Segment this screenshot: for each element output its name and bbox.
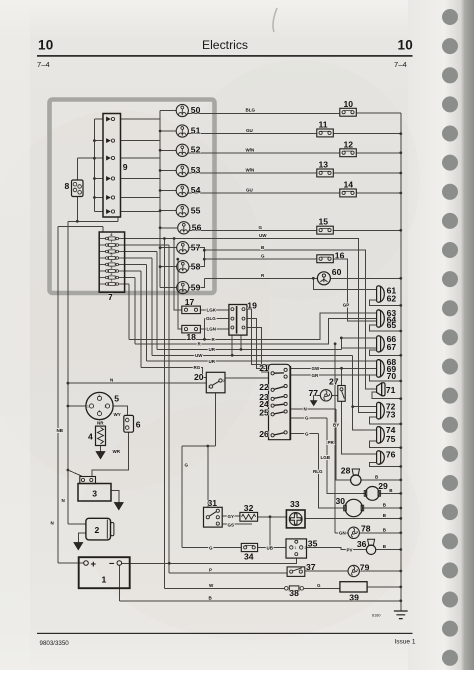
svg-text:GR: GR <box>312 373 320 378</box>
svg-text:3: 3 <box>111 266 113 270</box>
lamp 59 <box>177 282 189 294</box>
resistor 32 <box>240 512 258 521</box>
wire G fuse 38 to unit 39 <box>304 587 340 589</box>
svg-text:12: 12 <box>344 139 354 149</box>
wire from connector 8 bottom <box>76 197 78 222</box>
wire PV to pump 36 <box>307 547 401 549</box>
lamp 57 <box>177 242 189 254</box>
svg-text:LGN: LGN <box>207 327 217 332</box>
switch 20 <box>206 372 225 393</box>
svg-text:BY: BY <box>333 423 339 428</box>
svg-text:56: 56 <box>192 223 202 233</box>
svg-text:11: 11 <box>319 120 328 130</box>
wire resistor 32 to clock 33 <box>258 517 288 548</box>
wire switch 20 right to switchpack <box>225 377 269 379</box>
svg-text:G: G <box>305 415 309 420</box>
svg-text:7–4: 7–4 <box>394 60 407 69</box>
svg-text:1: 1 <box>102 575 107 585</box>
node ignition feed tap <box>67 405 70 408</box>
lamp 55 <box>176 205 188 217</box>
ignition switch 5 <box>86 392 113 419</box>
wire GR switchpack to connector 68 <box>290 374 376 376</box>
wire dynamo 2 to ground <box>78 533 86 543</box>
switch 27 <box>338 386 345 402</box>
svg-text:60: 60 <box>332 267 342 277</box>
node R row to 61 <box>312 277 315 280</box>
svg-text:38: 38 <box>289 588 299 598</box>
svg-text:8: 8 <box>65 181 70 191</box>
wire row into fusebox 7 top <box>58 227 103 232</box>
svg-text:2: 2 <box>98 394 100 398</box>
svg-text:7: 7 <box>111 240 113 244</box>
wire fuse f4 UW row to connectors 72 74 <box>125 258 377 430</box>
svg-text:10: 10 <box>344 99 354 109</box>
wire rows box 9 to lamp bus <box>121 119 161 212</box>
wire LGK switch 17 to connector 19 <box>200 309 229 311</box>
svg-text:4: 4 <box>111 259 113 263</box>
node feed 17 <box>173 237 176 240</box>
node fuse f1 branch <box>163 237 166 240</box>
node feed 18 <box>176 258 179 261</box>
node UW to 72 <box>351 405 354 408</box>
wire GN switch 35 to fan 78 <box>335 344 401 533</box>
svg-text:GS: GS <box>228 522 235 527</box>
wire N row to switch 20 <box>68 382 206 384</box>
svg-text:62: 62 <box>387 293 397 303</box>
svg-text:53: 53 <box>191 165 201 175</box>
ground main bus <box>394 611 408 619</box>
wire fuse f6 RG row to switch 20 <box>125 271 207 378</box>
svg-text:16: 16 <box>335 250 345 260</box>
wire G switch 20 down to fuse 34 row <box>182 393 241 548</box>
wire connector 76 loop to bus <box>370 462 401 466</box>
svg-text:GU: GU <box>246 188 253 193</box>
wire W vertical <box>164 239 284 589</box>
svg-text:30: 30 <box>336 496 346 506</box>
svg-text:50: 50 <box>191 105 201 115</box>
switch 35 <box>286 539 307 558</box>
fuse 34 <box>241 543 257 551</box>
wire UB fuse 34 to switch 35 <box>258 546 286 548</box>
svg-text:55: 55 <box>191 206 201 216</box>
svg-text:3: 3 <box>105 404 107 408</box>
wire fuse f3 UR row to connector 66 <box>125 252 377 350</box>
connector 66 67 <box>377 336 385 352</box>
connector 63 64 65 <box>377 310 385 327</box>
svg-text:39: 39 <box>349 593 359 603</box>
svg-text:UR: UR <box>209 359 216 364</box>
svg-text:WR: WR <box>113 449 121 454</box>
svg-text:G: G <box>209 545 213 550</box>
wire to control box 3 top-left <box>68 470 83 477</box>
lamp 52 <box>176 144 188 156</box>
svg-text:UR: UR <box>209 347 216 352</box>
svg-text:78: 78 <box>361 523 371 533</box>
svg-text:7–4: 7–4 <box>37 60 50 69</box>
svg-text:GLG: GLG <box>206 316 216 321</box>
node bus junctions <box>399 132 402 135</box>
wire lamp stubs <box>160 111 178 288</box>
wire GP switch 16 to connector 63 <box>333 259 376 321</box>
wire from connector 8 top to left bus <box>77 158 94 180</box>
wire GW switchpack to connector 68 <box>290 367 376 369</box>
wire G row to switch 16 <box>204 258 316 260</box>
connector 61 62 <box>377 286 385 303</box>
node connector 8 branch <box>76 220 79 223</box>
wire clock 33 to bus <box>305 517 401 519</box>
lamp 58 <box>177 261 189 273</box>
svg-text:UB: UB <box>267 545 274 550</box>
lamp 50 <box>176 104 188 116</box>
wire connector 19 right outputs to switchpack <box>247 309 269 372</box>
svg-text:2: 2 <box>305 546 307 550</box>
wire B row to horn 71 <box>204 250 376 389</box>
svg-text:6: 6 <box>136 420 141 430</box>
wire GY switch 31 to resistor 32 <box>222 515 240 517</box>
unit 39 <box>340 582 367 592</box>
wire BLG lamp 50 to switch 10 <box>187 112 340 114</box>
svg-text:N: N <box>51 520 54 525</box>
lamp 51 <box>176 125 188 137</box>
svg-text:36: 36 <box>357 539 367 549</box>
svg-text:18: 18 <box>186 332 196 342</box>
svg-text:14: 14 <box>344 180 354 190</box>
wire left bus beside box 9 <box>94 119 103 212</box>
svg-text:5: 5 <box>114 394 119 404</box>
svg-text:+: + <box>91 559 97 570</box>
wire switch 27 top <box>341 368 343 385</box>
wire R feed to connector 61 <box>313 278 376 289</box>
node P branch <box>168 562 171 565</box>
svg-text:77: 77 <box>309 388 319 398</box>
connector 76 <box>377 451 385 465</box>
svg-text:Electrics: Electrics <box>202 38 248 52</box>
svg-text:NB: NB <box>57 428 64 433</box>
svg-text:22: 22 <box>259 382 269 392</box>
svg-text:NR: NR <box>97 420 104 425</box>
wire feed to switch 18 <box>178 259 182 329</box>
svg-text:G: G <box>305 431 309 436</box>
svg-text:GN: GN <box>339 531 346 536</box>
svg-text:1: 1 <box>111 279 113 283</box>
horn 71 <box>377 383 385 396</box>
connector 72 73 <box>377 402 385 419</box>
svg-text:9: 9 <box>123 162 128 172</box>
svg-text:P: P <box>209 568 212 573</box>
wire connector 63 loop to bus <box>370 325 401 331</box>
connector 6 <box>124 415 134 432</box>
ballast resistor 4 <box>96 426 106 445</box>
svg-text:PV: PV <box>347 548 353 553</box>
svg-text:76: 76 <box>386 450 396 460</box>
ground control box 3 <box>114 503 123 510</box>
wire horn 71 loop to bus <box>372 392 401 399</box>
switch 14 <box>340 189 357 197</box>
wire NR ignition 5 to ballast 4 <box>99 420 101 427</box>
dynamo 2 <box>86 518 114 540</box>
svg-text:G: G <box>317 583 321 588</box>
svg-text:GP: GP <box>343 302 350 307</box>
wire G lamp 56 to switch 15 <box>188 229 316 231</box>
svg-text:32: 32 <box>244 503 254 513</box>
node lamp bus junctions <box>159 130 162 133</box>
pump 36 <box>366 539 375 554</box>
svg-text:2: 2 <box>111 272 113 276</box>
motor 30 <box>344 499 364 516</box>
svg-text:17: 17 <box>185 297 195 307</box>
svg-text:Issue 1: Issue 1 <box>395 638 416 645</box>
svg-text:10: 10 <box>398 38 413 53</box>
svg-text:WY: WY <box>114 412 121 417</box>
wire pump 28 to bus <box>361 479 401 481</box>
svg-text:4: 4 <box>88 431 93 441</box>
wire motor 29 to bus <box>380 492 401 494</box>
wire switch outputs to bus <box>333 113 401 230</box>
switch 16 <box>317 255 334 263</box>
wire fuse f1 row LW <box>125 239 377 413</box>
svg-text:59: 59 <box>191 282 201 292</box>
wire connector 61 loop to bus <box>370 300 401 305</box>
svg-text:7: 7 <box>108 292 113 302</box>
fan 77 <box>320 390 331 401</box>
node GN feed tap <box>334 342 337 345</box>
wire fuse f2 to P row <box>125 245 288 573</box>
node 19 output b <box>240 348 243 351</box>
svg-text:6: 6 <box>111 246 113 250</box>
lamp 54 <box>176 184 188 196</box>
wire fuse f7 R row to connector 64 <box>125 278 377 344</box>
wire motor 30 to bus <box>362 507 400 509</box>
wire battery minus down to B row <box>119 565 401 601</box>
node 27 to GW <box>340 367 343 370</box>
wire G switchpack RLG to motor 30 <box>290 434 345 508</box>
wire WY ignition 5 to connector 6 <box>113 406 127 415</box>
svg-text:3: 3 <box>92 488 97 498</box>
wire P switch 37 to fan 79 and bus <box>305 570 401 572</box>
wire N switchpack to PR and pump 28 <box>290 409 350 480</box>
svg-text:GW: GW <box>312 366 321 371</box>
svg-text:1: 1 <box>208 385 210 389</box>
node GLG branch <box>203 338 206 341</box>
switch 18 <box>182 325 201 333</box>
wire NB left vertical to battery <box>58 227 84 563</box>
svg-text:35: 35 <box>308 538 318 548</box>
battery 1 <box>79 557 130 588</box>
svg-text:67: 67 <box>387 342 397 352</box>
wire GLG row <box>205 319 229 340</box>
ground dynamo 2 <box>74 543 83 550</box>
wire connector 72 loop to bus <box>370 417 401 424</box>
node lamp 57 58 bracket B <box>203 249 206 252</box>
wire unit 39 to bus <box>367 586 401 588</box>
switch 31 <box>204 507 223 527</box>
node control box feed tap <box>67 469 70 472</box>
connector strip 9 <box>103 114 121 218</box>
node 32 output branch <box>269 515 272 518</box>
svg-text:RLG: RLG <box>313 469 323 474</box>
fan 78 <box>348 527 359 538</box>
switch 11 <box>317 129 334 137</box>
node N row tap <box>67 382 70 385</box>
wire G switchpack LGB to motor 29 <box>290 418 365 494</box>
svg-text:37: 37 <box>306 562 316 572</box>
wire feed to switch 17 <box>174 239 182 310</box>
svg-text:−: − <box>109 558 115 569</box>
wire connector 19 bottom outputs <box>232 335 241 355</box>
svg-text:N: N <box>62 498 65 503</box>
svg-text:UW: UW <box>195 353 203 358</box>
wire bracket lamps 57 58 <box>189 248 205 267</box>
motor 29 <box>364 487 380 501</box>
svg-text:58: 58 <box>191 262 201 272</box>
svg-text:8180: 8180 <box>372 614 380 618</box>
wire fan 77 terminals <box>314 395 338 400</box>
wire connector 68 loop to bus <box>370 375 401 381</box>
switch 15 <box>317 226 334 234</box>
pump 28 <box>351 469 361 485</box>
connector 8 <box>72 180 84 197</box>
switchpack 21-26 <box>269 364 291 439</box>
wire R lamp 59 to lamp 60 and bus <box>189 278 401 287</box>
wire GU lamp 54 to switch 14 <box>187 192 340 194</box>
grey frame <box>50 100 215 294</box>
svg-text:70: 70 <box>387 371 397 381</box>
fuse 38 <box>285 586 304 591</box>
svg-text:LGB: LGB <box>321 455 331 460</box>
svg-text:57: 57 <box>191 243 201 253</box>
wire WR connector 6 to control box 3 <box>92 432 129 476</box>
node 19 output a <box>231 354 234 357</box>
wire row battery minus to 35 bottom <box>122 558 297 563</box>
control box 3 <box>78 477 111 502</box>
svg-text:G: G <box>259 225 263 230</box>
wire GU lamp 51 to switch 11 <box>187 133 317 135</box>
svg-text:5: 5 <box>111 253 113 257</box>
switch 37 <box>287 567 305 577</box>
wire WN lamp 52 to switch 12 <box>187 152 340 154</box>
svg-text:75: 75 <box>386 434 396 444</box>
node left bus junctions <box>93 139 96 142</box>
wire main right bus <box>400 113 402 611</box>
svg-text:4: 4 <box>98 410 100 414</box>
svg-text:28: 28 <box>341 466 351 476</box>
connector 74 75 <box>377 427 385 444</box>
svg-text:W/N: W/N <box>246 168 255 173</box>
connector 19 <box>229 305 247 336</box>
binding holes <box>442 9 458 666</box>
wire connector 66 loop to bus <box>370 350 401 355</box>
fan 79 <box>348 565 359 576</box>
svg-text:N: N <box>110 378 113 383</box>
wire row under box 9 <box>68 217 118 222</box>
lamp 56 <box>178 222 190 234</box>
svg-text:29: 29 <box>378 481 388 491</box>
ground fan 77 <box>311 401 317 406</box>
svg-text:79: 79 <box>360 563 370 573</box>
node UR to 66 <box>340 337 343 340</box>
switch 10 <box>340 108 357 116</box>
svg-text:10: 10 <box>38 38 53 53</box>
svg-text:20: 20 <box>194 372 204 382</box>
svg-text:1: 1 <box>87 404 89 408</box>
svg-text:UW: UW <box>259 233 267 238</box>
wire connector 74 loop to bus <box>370 441 401 447</box>
svg-text:73: 73 <box>386 410 396 420</box>
wire fuse f8 R row to connector 63 <box>125 284 377 339</box>
svg-text:26: 26 <box>259 429 269 439</box>
svg-text:PR: PR <box>328 440 335 445</box>
svg-text:GY: GY <box>228 514 235 519</box>
svg-text:8: 8 <box>111 233 113 237</box>
wire control box 3 to ground <box>111 491 119 503</box>
lamp 53 <box>176 164 188 176</box>
lamp 60 <box>317 272 330 285</box>
wire GS stub from switch 31 <box>222 523 252 525</box>
wire BY switch 27 to connector 76 <box>342 401 377 454</box>
svg-text:19: 19 <box>247 301 257 311</box>
clock 33 <box>286 510 305 528</box>
svg-text:RG: RG <box>194 365 201 370</box>
svg-text:15: 15 <box>319 217 329 227</box>
svg-text:G: G <box>185 462 189 467</box>
switch 17 <box>182 306 201 314</box>
svg-text:51: 51 <box>191 125 201 135</box>
wire ballast 4 to ground <box>100 446 102 452</box>
svg-text:2: 2 <box>223 379 225 383</box>
wire N left vertical <box>68 221 86 524</box>
svg-text:W/N: W/N <box>246 147 255 152</box>
svg-text:BLG: BLG <box>246 108 256 113</box>
svg-text:G: G <box>261 254 265 259</box>
svg-text:25: 25 <box>259 408 269 418</box>
svg-text:1: 1 <box>295 546 297 550</box>
svg-text:21: 21 <box>259 363 269 373</box>
svg-text:71: 71 <box>386 385 396 395</box>
header <box>37 38 416 647</box>
wire LGN switch 18 to connector 19 <box>200 328 229 330</box>
wire fuse f5 UR row to connector 68 <box>125 265 377 362</box>
connector 68 69 70 <box>377 360 385 378</box>
node lamp 58 bracket G <box>203 258 206 261</box>
svg-text:27: 27 <box>329 376 339 386</box>
switch 13 <box>317 169 334 177</box>
svg-text:13: 13 <box>319 160 329 170</box>
svg-text:N: N <box>304 407 307 412</box>
svg-text:33: 33 <box>290 499 300 509</box>
wire feed to switch 31 <box>207 446 209 507</box>
svg-text:54: 54 <box>191 185 201 195</box>
wire WN lamp 53 to switch 13 <box>187 172 317 174</box>
svg-text:65: 65 <box>387 320 397 330</box>
svg-text:34: 34 <box>244 552 254 562</box>
wire lamp bus <box>159 111 161 288</box>
svg-text:2: 2 <box>95 525 100 535</box>
svg-text:GU: GU <box>246 128 253 133</box>
fusebox 7 <box>99 232 124 292</box>
svg-text:9803/3350: 9803/3350 <box>40 640 70 647</box>
svg-text:52: 52 <box>191 145 201 155</box>
wire ignition switch 5 left feed <box>68 405 86 407</box>
node UB row branch <box>269 546 272 549</box>
svg-text:31: 31 <box>208 498 218 508</box>
svg-text:LGK: LGK <box>207 307 217 312</box>
ground ballast 4 <box>96 452 105 459</box>
switch 12 <box>340 149 357 157</box>
node switch 31 feed tap <box>206 445 209 448</box>
